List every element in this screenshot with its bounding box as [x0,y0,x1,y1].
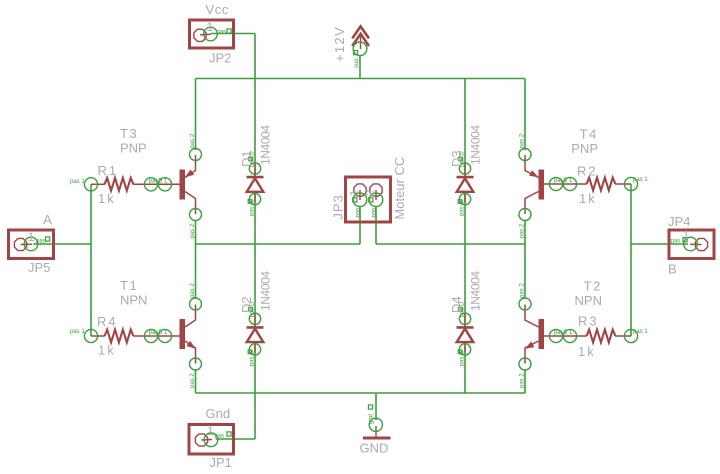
+12V chevron upper [352,26,369,38]
JP4 pin stub [690,243,702,245]
D3 anode triangle [457,178,474,191]
wire JP3 pin1 stem [359,206,361,244]
GND pin circle [369,418,382,431]
D1 bottom pin square [248,200,252,204]
D2 bottom pin square [248,350,252,354]
svg-text:pas: pas [671,239,681,245]
svg-text:pas 2: pas 2 [520,283,526,298]
svg-text:1N4004: 1N4004 [469,271,483,311]
transistor T1 NPN [120,278,202,388]
T1 top pin circle [190,298,202,310]
R4 lead [91,335,105,337]
D2 pin stub [254,313,256,352]
connector JP4 [668,214,714,277]
wire R1 lead to T3 base [133,183,179,185]
D3 top pin circle [459,163,470,174]
svg-text:pas 1: pas 1 [70,329,85,335]
svg-text:pas 2: pas 2 [520,373,526,388]
svg-text:pas G: pas G [250,350,256,366]
svg-text:pas 2: pas 2 [190,373,196,388]
+12V pin square [354,51,358,55]
wire T2 collector riser [524,244,526,298]
diode D2 1N4004 [239,271,273,367]
wire motor-left rail y244 [196,243,361,245]
svg-text:sup: sup [354,58,360,68]
wire GND bottom rail y393 [196,392,526,394]
JP2 pad octagon [194,29,206,41]
R3 outer pin name pas 1 [633,329,648,335]
D3 top pin square [459,157,463,161]
svg-text:NPN: NPN [575,293,602,308]
D1 pin stub [254,163,256,202]
svg-text:pas 1: pas 1 [633,177,648,183]
T4 top pin circle [519,149,531,161]
svg-text:Vcc: Vcc [206,2,229,17]
R3 pin circle outer [624,329,637,342]
wire JP2 to Vcc net (horizontal) [211,33,255,35]
wire JP3 pin2 stem [375,206,377,244]
JP3 pad 1 octagon [354,184,366,196]
wire right control vertical x631 [630,184,632,336]
T3 bottom pin circle [190,209,202,221]
svg-text:PNP: PNP [120,141,147,156]
svg-text:1: 1 [683,228,690,242]
JP3 box [346,177,391,222]
wire R4 lead to T1 base [133,335,179,337]
svg-text:R4: R4 [97,314,118,329]
svg-text:pas 2: pas 2 [190,283,196,298]
svg-text:pas 2: pas 2 [190,223,196,238]
wire JP4 to node B [631,243,688,245]
connector JP5 [9,212,54,275]
D2 cathode bar [247,326,264,329]
R4 zigzag body [105,330,134,343]
D1 bottom pin circle [249,193,260,204]
wire R3 lead to T2 base [544,335,587,337]
svg-text:B: B [668,262,677,277]
wire R2 lead to T4 base [544,183,587,185]
GND pin square [368,405,372,409]
resistor R3 1k [578,314,638,360]
D2 top pin circle [249,313,260,324]
T4 top pin (diagonal+lead) [525,155,539,178]
wire motor-right rail y244 [376,243,525,245]
svg-text:JP5: JP5 [28,260,50,275]
wire GND symbol stem [375,393,377,420]
svg-text:1: 1 [28,230,35,244]
diode D3 1N4004 [449,125,483,216]
T3 top pin (diagonal+lead) [185,155,196,178]
svg-text:pasB 1: pasB 1 [554,330,573,336]
R2 zigzag body [587,178,616,191]
svg-text:1: 1 [207,20,214,34]
svg-text:R1: R1 [98,163,119,178]
T4 base bar [539,170,545,200]
connector JP1 [189,406,234,470]
svg-text:D1: D1 [239,150,254,167]
svg-text:pas: pas [355,208,361,218]
T3 arrow [185,170,194,178]
svg-text:1k: 1k [578,344,596,359]
D4 anode triangle [457,329,474,342]
D2 anode triangle [247,329,264,342]
wire left control vertical x91 [90,184,92,336]
JP1 pin stub [202,439,213,442]
svg-text:T4: T4 [580,127,598,142]
T1 base pin circles [144,329,157,342]
svg-text:T1: T1 [120,278,138,293]
R4 pin circle outer [84,329,97,342]
svg-text:R3: R3 [578,314,599,329]
T1 bottom pin (diagonal+lead) [185,341,196,364]
wire +12V stem [359,55,361,79]
svg-text:JP1: JP1 [210,455,232,470]
wire T1 collector riser [195,244,197,298]
+12V pin circle [353,42,367,56]
svg-text:1N4004: 1N4004 [259,271,273,311]
JP2 pin stub [200,33,211,36]
D3 bottom pin square [458,200,462,204]
svg-text:GND: GND [360,441,389,456]
svg-text:JP3: JP3 [331,194,346,219]
wire T3 emitter drop [195,79,197,151]
R2 outer pin name pas 1 [633,177,648,183]
T2 arrow [525,342,534,349]
wire T4 collector to rail [524,220,526,244]
T2 bottom pin (diagonal+lead) [525,341,539,364]
wire JP1 riser [254,393,256,439]
T3 bottom pin (diagonal+lead) [185,192,196,215]
svg-text:1k: 1k [579,191,597,206]
svg-text:pasB 1: pasB 1 [149,330,168,336]
JP5 pin stub [21,243,33,245]
R1 outer pin name pas 1 [70,179,85,185]
JP5 pin square [46,237,50,241]
D2 bottom pin circle [249,344,260,355]
wire D4 column x465 [464,244,466,393]
GND stub red [375,426,377,437]
svg-text:pas 2: pas 2 [520,133,526,148]
svg-text:+12V: +12V [332,26,347,62]
T2 top pin circle [519,298,531,310]
T3 top pin circle [190,149,202,161]
R1 lead [91,183,105,185]
JP1 pin circle [204,433,218,447]
JP1 pin square [227,432,231,436]
T1 base bar [180,319,186,349]
JP5 pin circle [24,237,38,251]
D4 bottom pin circle [459,344,470,355]
+12V chevron lower [352,34,369,46]
JP3 pin 1 circle [353,193,367,207]
T4 bottom pin circle [519,209,531,221]
diode D4 1N4004 [449,271,483,367]
JP3 pin 2 square [369,198,373,202]
svg-text:pas G: pas G [460,200,466,216]
R2 pin circle outer [624,177,637,190]
svg-text:Moteur CC: Moteur CC [392,157,407,220]
svg-text:NPN: NPN [120,293,147,308]
D1 top pin circle [249,163,260,174]
R3 lead [615,335,631,337]
D1 anode triangle [247,178,264,191]
D3 bottom pin circle [459,193,470,204]
wire T2 emitter drop [524,370,526,393]
svg-text:2: 2 [365,190,377,196]
wire JP1 horizontal [216,438,255,440]
svg-text:pas G: pas G [250,200,256,216]
svg-text:gnd: gnd [368,414,374,424]
svg-text:A: A [43,212,52,227]
resistor R4 1k [84,314,133,358]
D4 pin stub [464,313,466,352]
T1 bottom pin circle [190,358,202,370]
supply symbol +12V [332,26,369,68]
svg-text:Gnd: Gnd [206,406,231,421]
wire JP5 to node A [33,243,91,245]
svg-text:D4: D4 [449,296,464,313]
T4 arrow [529,170,538,177]
svg-text:1: 1 [349,190,361,196]
svg-text:D2: D2 [239,296,254,313]
wire T4 emitter drop [524,79,526,151]
T2 bottom pin circle [519,358,531,370]
svg-text:D3: D3 [449,150,464,167]
svg-text:pas: pas [371,208,377,218]
R3 zigzag body [587,330,616,343]
JP1 box [189,425,234,455]
diode D1 1N4004 [239,125,273,216]
D4 cathode bar [457,326,474,329]
wire T1 emitter drop [195,370,197,393]
D3 cathode bar [457,176,474,179]
svg-text:T2: T2 [584,279,602,294]
R2 lead [615,183,631,185]
svg-text:JP2: JP2 [209,51,231,66]
JP3 pin 1 square [353,198,357,202]
JP4 box [669,230,714,259]
svg-text:pas 1: pas 1 [633,329,648,335]
svg-text:pas 2: pas 2 [190,133,196,148]
T2 top pin (diagonal+lead) [525,305,539,328]
svg-text:pas: pas [36,239,46,245]
T2 base pin circles [549,329,562,342]
JP4 pad octagon [695,238,707,250]
JP2 pin circle [204,27,218,41]
svg-text:R2: R2 [577,164,598,179]
svg-text:pas 1: pas 1 [70,179,85,185]
T2 base bar [539,319,545,349]
resistor R1 1k [84,163,133,206]
ground symbol GND [360,405,391,456]
svg-text:PNP: PNP [571,141,598,156]
R4 outer pin name pas 1 [70,329,85,335]
JP4 pin square [683,238,687,242]
wire Vcc net vertical x255 (JP2 down through D1 to motor-left rail) [254,34,256,245]
transistor T4 PNP [519,127,598,239]
JP1 pad octagon [195,434,207,446]
resistor R2 1k [577,164,638,207]
svg-text:T3: T3 [120,126,138,141]
D1 cathode bar [247,176,264,179]
R1 pin circle outer [84,178,97,191]
svg-text:pasB 1: pasB 1 [554,178,573,184]
T3 base pin circles [144,178,157,191]
JP5 pad octagon [14,238,26,250]
D4 top pin circle [459,313,470,324]
connector JP2 [190,2,234,66]
JP5 box [9,230,54,259]
D4 bottom pin square [458,350,462,354]
transistor T3 PNP [120,126,202,239]
svg-text:1k: 1k [98,191,116,206]
JP2 pin square [227,29,231,33]
svg-text:pas: pas [217,30,227,36]
D2 top pin square [249,308,253,312]
svg-text:1N4004: 1N4004 [259,125,273,165]
svg-text:pas: pas [215,434,225,440]
wire Vcc top rail y78 [196,78,526,80]
JP3 pin 2 stub [375,190,377,200]
T1 arrow [186,341,195,349]
svg-text:JP4: JP4 [668,214,690,229]
D4 top pin square [459,308,463,312]
JP3 pin 1 stub [359,190,361,200]
JP2 box [190,20,234,48]
svg-text:pas 2: pas 2 [520,223,526,238]
R1 zigzag body [105,178,134,191]
svg-text:pasB 1: pasB 1 [149,178,168,184]
GND bar [363,437,391,440]
svg-text:1N4004: 1N4004 [469,125,483,165]
wire T3 collector to rail [195,220,197,244]
svg-text:pas G: pas G [460,350,466,366]
D3 pin stub [464,163,466,202]
JP3 pin 2 circle [369,193,383,207]
JP3 pad 2 octagon [370,184,382,196]
JP4 pin circle [684,237,698,251]
T4 base pin circles [549,177,562,190]
svg-text:1k: 1k [98,343,116,358]
wire D3 column x465 [464,79,466,245]
connector JP3 [331,157,408,222]
wire D2 column x255 [254,244,256,393]
transistor T2 NPN [519,279,602,389]
T4 bottom pin (diagonal+lead) [525,192,539,215]
T3 base bar [180,170,186,200]
D1 top pin square [249,157,253,161]
svg-text:1: 1 [207,424,214,438]
+12V stem red [360,34,362,49]
T1 top pin (diagonal+lead) [185,305,196,328]
